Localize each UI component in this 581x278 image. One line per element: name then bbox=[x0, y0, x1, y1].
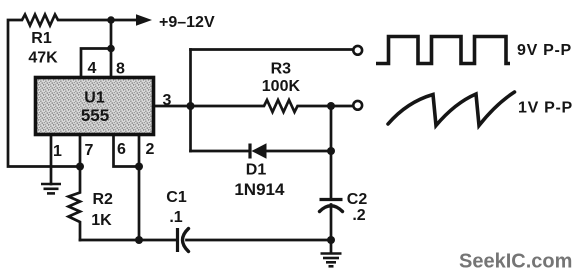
svg-text:R1: R1 bbox=[31, 30, 52, 47]
svg-text:.2: .2 bbox=[352, 207, 365, 224]
svg-text:C1: C1 bbox=[166, 189, 187, 206]
svg-text:555: 555 bbox=[81, 106, 109, 125]
svg-text:7: 7 bbox=[85, 142, 94, 159]
svg-text:+9–12V: +9–12V bbox=[159, 14, 215, 31]
svg-text:1K: 1K bbox=[91, 212, 112, 229]
svg-text:U1: U1 bbox=[84, 90, 105, 107]
svg-text:2: 2 bbox=[146, 141, 155, 158]
svg-text:47K: 47K bbox=[28, 50, 58, 67]
svg-text:SeekIC.com: SeekIC.com bbox=[459, 251, 572, 273]
svg-text:.1: .1 bbox=[169, 209, 182, 226]
svg-text:6: 6 bbox=[117, 141, 126, 158]
svg-text:100K: 100K bbox=[262, 78, 301, 95]
svg-text:9V P-P: 9V P-P bbox=[517, 42, 572, 59]
svg-text:1N914: 1N914 bbox=[234, 180, 285, 199]
svg-text:R3: R3 bbox=[271, 61, 292, 78]
svg-text:C2: C2 bbox=[347, 191, 368, 208]
svg-text:D1: D1 bbox=[246, 162, 267, 179]
svg-text:4: 4 bbox=[88, 60, 97, 77]
svg-text:1V P-P: 1V P-P bbox=[518, 100, 573, 117]
svg-text:8: 8 bbox=[116, 61, 125, 78]
svg-text:3: 3 bbox=[163, 92, 172, 109]
svg-text:R2: R2 bbox=[92, 191, 113, 208]
svg-text:1: 1 bbox=[53, 143, 62, 160]
